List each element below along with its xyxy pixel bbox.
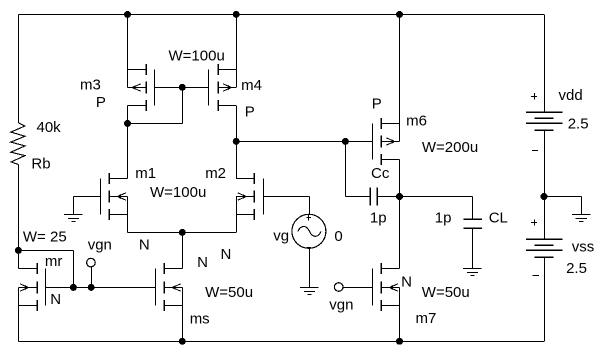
- source vg minus mark: [306, 247, 311, 249]
- source vg sine wave: [298, 226, 321, 236]
- wire tail to ms drain: [182, 232, 184, 268]
- svg-text:N: N: [139, 237, 150, 254]
- svg-text:vg: vg: [273, 228, 289, 245]
- svg-text:mr: mr: [45, 253, 63, 270]
- junction m7 source at rail: [396, 338, 403, 345]
- junction ms source at rail: [179, 338, 186, 345]
- svg-text:m1: m1: [135, 165, 156, 182]
- transistor m3: [154, 69, 156, 105]
- battery vdd: [526, 111, 563, 113]
- svg-text:vdd: vdd: [559, 87, 583, 104]
- transistor m4: [208, 69, 210, 105]
- junction m4 at vdd rail: [233, 11, 240, 18]
- wire mr source to bottom rail: [18, 306, 20, 342]
- wire output to CL: [400, 196, 473, 198]
- svg-text:W= 25: W= 25: [23, 229, 67, 246]
- wire m1 gate lead: [73, 196, 100, 198]
- wire vdd battery to mid node: [544, 130, 546, 196]
- wire m6 source column from vdd rail: [399, 14, 401, 123]
- wire mr drain lead: [18, 250, 20, 268]
- svg-text:W=100u: W=100u: [150, 184, 206, 201]
- wire mr gate-drain tie vertical: [73, 250, 75, 287]
- svg-text:W=50u: W=50u: [422, 284, 470, 301]
- svg-text:Rb: Rb: [31, 156, 50, 173]
- wire ms source to bottom rail: [182, 306, 184, 342]
- junction supply mid node: [541, 193, 548, 200]
- wire m4 source column from vdd rail: [236, 14, 238, 69]
- transistor mr: [45, 268, 47, 305]
- junction output node: [396, 193, 403, 200]
- wire m1 source to tail: [127, 215, 129, 233]
- wire Cc tap vertical: [345, 141, 347, 196]
- capacitor Cc: [369, 187, 371, 205]
- wire CL top lead: [472, 197, 474, 220]
- svg-text:40k: 40k: [37, 119, 62, 136]
- svg-text:1p: 1p: [435, 210, 452, 227]
- wire m3 source column from vdd rail: [127, 14, 129, 69]
- svg-text:P: P: [245, 103, 255, 120]
- minus mark vdd: [532, 150, 538, 152]
- junction tail node: [179, 229, 186, 236]
- wire m2 drain from stage2 node: [236, 141, 238, 178]
- svg-text:vss: vss: [572, 238, 595, 255]
- wire m1 drain from m3 drain node: [127, 123, 129, 178]
- svg-text:m4: m4: [241, 77, 262, 94]
- wire m7 source to bottom rail: [399, 306, 401, 342]
- junction Cc tap on m6 gate net: [342, 138, 349, 145]
- source vg plus mark: [306, 217, 311, 219]
- wire mirror gate net mr to ms: [46, 287, 155, 289]
- transistor ms: [155, 268, 157, 305]
- transistor m2: [263, 179, 265, 215]
- svg-text:m6: m6: [406, 112, 427, 129]
- junction mr gate tie: [70, 284, 77, 291]
- transistor m1: [100, 179, 102, 215]
- wire stage2 node to m6 gate: [236, 141, 372, 143]
- wire m3-m4 gate net: [155, 87, 209, 89]
- wire vdd rail to battery: [544, 14, 546, 112]
- wire m7 gate lead: [343, 287, 372, 289]
- ground stem at supplies: [581, 197, 583, 215]
- wire output node to m7 drain: [399, 197, 401, 269]
- svg-text:ms: ms: [190, 310, 210, 327]
- svg-text:N: N: [50, 291, 61, 308]
- transistor m7: [372, 268, 374, 305]
- svg-text:W=50u: W=50u: [205, 284, 253, 301]
- wire m6 drain to output node: [399, 159, 401, 196]
- wire vgn left stem: [91, 267, 93, 287]
- ground at CL: [463, 268, 481, 270]
- wire CL bottom lead: [472, 228, 474, 269]
- wire vdd top rail: [18, 14, 544, 16]
- svg-text:CL: CL: [489, 209, 508, 226]
- ground at vg: [300, 287, 318, 289]
- wire Cc left lead: [345, 196, 369, 198]
- junction stage2 node: [233, 138, 240, 145]
- svg-text:P: P: [372, 96, 382, 113]
- junction m3 at vdd rail: [124, 11, 131, 18]
- svg-text:2.5: 2.5: [568, 115, 589, 132]
- junction bias node at Rb/mr: [15, 247, 22, 254]
- svg-text:vgn: vgn: [329, 296, 353, 313]
- wire mr gate-drain tie horizontal: [18, 250, 73, 252]
- wire vss bottom rail: [18, 341, 544, 343]
- wire m4 drain down to stage2 node: [236, 105, 238, 141]
- svg-text:N: N: [221, 246, 232, 263]
- svg-text:vgn: vgn: [88, 236, 112, 253]
- svg-text:N: N: [197, 254, 208, 271]
- wire m2 source to tail: [236, 215, 238, 233]
- terminal vgn left circle: [87, 258, 96, 267]
- svg-text:W=200u: W=200u: [422, 139, 478, 156]
- junction m3 drain node: [124, 120, 131, 127]
- svg-text:m2: m2: [205, 165, 226, 182]
- svg-text:Cc: Cc: [371, 165, 390, 182]
- resistor Rb: [11, 123, 25, 165]
- wire vss battery to bottom rail: [544, 257, 546, 341]
- wire Cc right lead: [377, 196, 400, 198]
- svg-text:0: 0: [334, 228, 342, 245]
- wire Rb bottom to bias node: [18, 165, 20, 251]
- svg-text:1p: 1p: [370, 210, 387, 227]
- junction m3/m4 gates: [179, 84, 186, 91]
- plus mark vss: [531, 222, 537, 224]
- svg-text:N: N: [401, 273, 412, 290]
- wire tail net: [128, 232, 237, 234]
- minus mark vss: [533, 275, 540, 277]
- plus mark vdd: [531, 96, 537, 98]
- ground at supplies: [572, 214, 590, 216]
- terminal vgn right circle: [334, 283, 343, 292]
- svg-text:2.5: 2.5: [566, 260, 587, 277]
- ground stem at m1 gate: [73, 197, 75, 215]
- wire m3 drain down to node: [127, 105, 129, 123]
- battery vss: [526, 238, 563, 240]
- wire m3 drain node to gate tie: [128, 123, 183, 125]
- svg-text:m3: m3: [80, 77, 101, 94]
- wire mid node to ground stub: [544, 196, 581, 198]
- ground at m1 gate: [64, 214, 82, 216]
- wire mid node to vss battery: [544, 197, 546, 240]
- junction m6 at vdd rail: [396, 11, 403, 18]
- junction vgn tap: [88, 284, 95, 291]
- wire vg stem: [309, 197, 311, 215]
- wire gate tie vertical to mirror gates: [182, 87, 184, 123]
- svg-text:W=100u: W=100u: [169, 48, 225, 65]
- source vg circle: [292, 214, 326, 248]
- wire left column top (vdd rail to Rb): [18, 14, 20, 122]
- wire vg to ground: [309, 248, 311, 287]
- wire m2 gate lead to vg: [264, 196, 310, 198]
- transistor m6: [372, 123, 374, 159]
- capacitor CL: [464, 218, 483, 220]
- svg-text:P: P: [96, 94, 106, 111]
- svg-text:m7: m7: [416, 310, 437, 327]
